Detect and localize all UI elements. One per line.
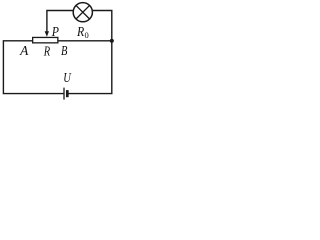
svg-text:B: B — [61, 44, 68, 59]
rheostat wiper arrowhead — [45, 31, 49, 37]
svg-text:U: U — [63, 71, 71, 86]
svg-text:P: P — [51, 25, 59, 40]
resistor R (rheostat body) — [33, 37, 58, 42]
lamp R0 — [73, 3, 92, 22]
svg-text:R: R — [76, 25, 84, 40]
wire: battery negative to right rail up to lamp right — [68, 11, 112, 94]
junction dot — [110, 39, 114, 43]
wire: terminal B to right rail — [58, 40, 112, 42]
svg-text:R: R — [43, 45, 50, 60]
svg-text:0: 0 — [85, 30, 89, 40]
wire: terminal A to left rail to battery positive — [3, 41, 63, 94]
wire: wiper top corner to lamp left — [47, 11, 74, 32]
battery U — [64, 88, 67, 100]
label R0 — [76, 25, 89, 40]
svg-text:A: A — [19, 44, 29, 59]
